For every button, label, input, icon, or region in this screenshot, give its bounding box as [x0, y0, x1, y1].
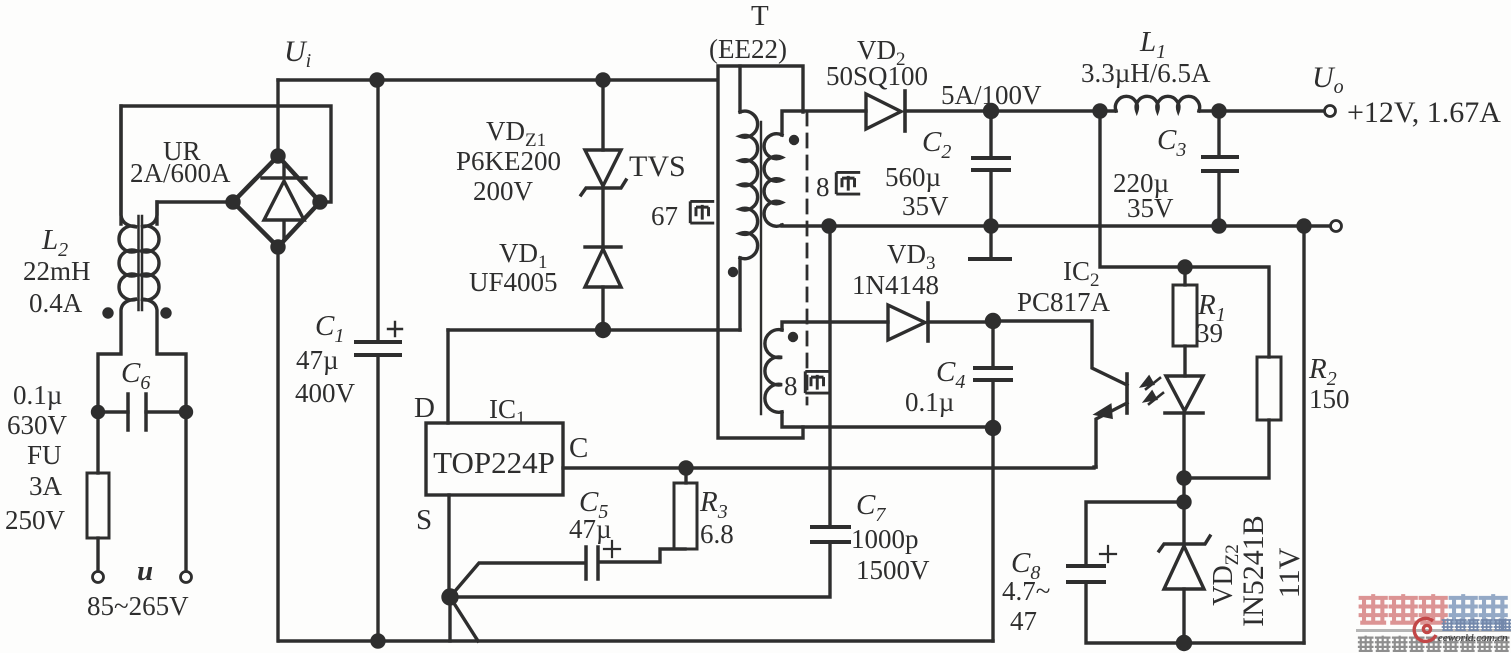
capacitor C8 plus sign [1100, 546, 1116, 562]
capacitor C5 plates [586, 547, 598, 579]
svg-text:P6KE200: P6KE200 [456, 146, 561, 176]
phototransistor base bar [1125, 374, 1129, 413]
transformer T primary winding 67turns [740, 111, 758, 259]
watermark underline [1356, 629, 1511, 632]
light arrows of optocoupler [1142, 377, 1163, 404]
watermark eeworld logo circle [1414, 618, 1436, 641]
wire L1 to output terminal [1199, 109, 1324, 112]
diode VD1 UF4005 cathode bar [585, 245, 621, 248]
node C4 bottom junction [987, 422, 1000, 435]
wire S node to ground rail [448, 597, 451, 641]
wire C pin of IC1 to optocoupler emitter [563, 466, 1094, 469]
diode VD2 cathode bar [903, 91, 907, 131]
capacitor C1 polarity plus [388, 322, 402, 336]
wire VD3 to C4 node [928, 320, 993, 323]
wire C8 branch [1086, 502, 1184, 566]
svg-text:0.1µ: 0.1µ [905, 387, 954, 417]
transformer T outline left/top/bottom [718, 66, 803, 438]
svg-text:(EE22): (EE22) [709, 34, 787, 64]
capacitor C3 bottom lead [1217, 171, 1220, 226]
wire HV+ rail top (node Ui) [278, 78, 717, 81]
phototransistor emitter with arrow [1096, 403, 1127, 467]
node VD1/drain junction [597, 324, 610, 337]
svg-text:TVS: TVS [629, 150, 686, 183]
wire bridge top to rail [276, 80, 279, 156]
wire left leg to fuse [96, 412, 99, 473]
TVS VDZ1 triangle (cathode up) [585, 150, 621, 186]
inductor L1 3.3uH [1115, 96, 1199, 111]
capacitor C6 wires and junction nodes [98, 410, 186, 413]
transformer T secondary lower polarity dot [790, 334, 797, 341]
svg-text:R3: R3 [699, 486, 728, 523]
node junction VDZ1 top [597, 74, 609, 86]
TVS VDZ1 zener bar with hooks [581, 180, 626, 195]
diode VD1 triangle (pointing up) [585, 249, 621, 287]
transformer T secondary upper winding 8turns [764, 134, 782, 227]
resistor R1 39 [1183, 267, 1186, 285]
transformer T secondary lower lead bottom (aux return) [782, 412, 993, 427]
zener VDZ2 triangle pointing up [1164, 546, 1204, 589]
resistor R2 150 [1257, 357, 1281, 420]
capacitor C2 plates [973, 158, 1009, 170]
svg-text:1500V: 1500V [856, 555, 930, 585]
watermark logo chars [1442, 618, 1511, 630]
wire VD2 to L1 (+12V rail) [905, 109, 1116, 112]
capacitor C2 bottom lead and stub bar [989, 170, 992, 258]
transformer T secondary lower lead top [782, 322, 888, 330]
terminal output return [1331, 221, 1342, 232]
node R3 top junction [680, 462, 692, 474]
node C3 top junction [1213, 105, 1225, 117]
svg-text:1N4148: 1N4148 [852, 270, 939, 300]
diode VD3 1N4148 triangle [888, 305, 925, 340]
svg-text:eeworld.com.cn: eeworld.com.cn [1438, 632, 1508, 644]
wire zener node [1182, 478, 1185, 543]
wire upper-left loop over bridge [121, 106, 331, 224]
node VDZ2 on control ground rail [1178, 637, 1191, 650]
svg-text:11V: 11V [1273, 547, 1306, 598]
node C4 top junction [987, 315, 1000, 328]
bridge rectifier UR 2A/600A diamond [233, 156, 320, 247]
node C7 on return rail [823, 220, 835, 232]
svg-text:VD3: VD3 [887, 239, 936, 274]
node C8 branch junction [1178, 496, 1190, 508]
svg-text:C: C [569, 432, 588, 464]
svg-text:C7: C7 [856, 489, 886, 526]
wire bridge left vertex to choke [157, 202, 233, 224]
svg-text:35V: 35V [902, 191, 949, 221]
resistor R3 6.8 [684, 468, 687, 483]
svg-text:6.8: 6.8 [700, 519, 734, 549]
svg-text:39: 39 [1196, 318, 1223, 348]
svg-text:0.1µ: 0.1µ [13, 380, 62, 410]
svg-text:250V: 250V [5, 505, 66, 535]
diode VD2 50SQ100 triangle [866, 94, 901, 129]
node Ui junction at C1 [371, 74, 383, 86]
L2 polarity dot left [104, 309, 112, 317]
wire emitter corner to C pin wire [1094, 465, 1096, 468]
diode symbol inside bridge UR [262, 163, 306, 238]
node C2 on return rail [985, 220, 997, 232]
svg-text:4.7~: 4.7~ [1002, 576, 1050, 606]
L2 polarity dot right [162, 309, 170, 317]
svg-text:400V: 400V [295, 378, 356, 408]
svg-text:S: S [416, 504, 432, 536]
diode VD3 cathode bar [926, 303, 930, 341]
capacitor C1 top lead [376, 80, 379, 341]
wire C7 to output return rail [828, 226, 831, 527]
node S star junction [443, 590, 457, 604]
capacitor C4 bottom lead [991, 380, 994, 428]
svg-text:T: T [751, 0, 769, 32]
svg-text:IN5241B: IN5241B [1237, 515, 1270, 627]
phototransistor of IC2 collector wire [993, 321, 1127, 385]
terminal input right [181, 572, 192, 583]
svg-text:u: u [137, 555, 153, 587]
wire C5 to R3 bottom [600, 549, 685, 562]
L2 core lines [139, 216, 143, 310]
op IC1 TOP224P box [426, 423, 563, 495]
capacitor C8 bottom lead to control ground rail [1086, 582, 1304, 643]
svg-text:1000p: 1000p [851, 524, 919, 554]
wire fuse to input terminal [96, 538, 99, 571]
wire VDZ1 to VD1 [601, 188, 604, 247]
svg-text:TOP224P: TOP224P [433, 445, 555, 480]
svg-text:C1: C1 [315, 310, 344, 347]
svg-text:IC1: IC1 [489, 394, 526, 429]
inductor L2 right winding [141, 202, 186, 412]
svg-text:3A: 3A [29, 471, 63, 501]
wire feedback branch down to R1/R2 [1100, 111, 1269, 357]
svg-text:UF4005: UF4005 [469, 267, 558, 297]
svg-text:85~265V: 85~265V [87, 591, 189, 621]
wire VDZ2 to control ground [1182, 589, 1185, 643]
capacitor C6 plates [128, 394, 146, 430]
wire right leg to input terminal [184, 412, 187, 571]
transformer T secondary upper lead bottom to output return rail [782, 225, 1330, 226]
capacitor C4 0.1u top lead [991, 321, 994, 367]
wire D pin of IC1 [446, 330, 449, 423]
transformer T secondary upper lead top [782, 111, 866, 135]
svg-text:47µ: 47µ [296, 345, 339, 375]
svg-text:8: 8 [784, 371, 798, 401]
svg-text:5A/100V: 5A/100V [941, 80, 1042, 110]
capacitor C1 bottom lead [376, 355, 379, 641]
transformer T primary lead bottom [738, 258, 741, 330]
node C3 on return rail [1213, 220, 1225, 232]
terminal input left [93, 572, 104, 583]
wire S node diagonal to ground rail [450, 597, 478, 641]
svg-text:200V: 200V [473, 176, 534, 206]
svg-text:2A/600A: 2A/600A [130, 158, 231, 188]
TVS VDZ1 P6KE200 lead from rail [601, 80, 604, 150]
wire S node to C7 [450, 543, 830, 597]
svg-text:50SQ100: 50SQ100 [826, 61, 928, 91]
svg-text:FU: FU [27, 440, 62, 470]
svg-text:8: 8 [816, 172, 830, 202]
svg-text:Uo: Uo [1312, 61, 1344, 98]
svg-text:C3: C3 [1157, 124, 1186, 161]
node feedback branch junction [1094, 105, 1106, 117]
zener VDZ2 bar with hooks [1159, 536, 1210, 551]
wire bridge bottom to primary ground rail [276, 247, 279, 641]
svg-text:D: D [414, 392, 435, 424]
svg-text:67: 67 [651, 201, 678, 231]
svg-text:IC2: IC2 [1063, 256, 1100, 291]
svg-text:3.3µH/6.5A: 3.3µH/6.5A [1081, 58, 1211, 88]
capacitor C1 plates [356, 342, 400, 355]
terminal output plus [1325, 106, 1336, 117]
transformer T primary polarity dot [730, 269, 737, 276]
wire primary ground rail [279, 639, 993, 642]
transformer T secondary lower winding 8turns [765, 330, 782, 413]
svg-text:35V: 35V [1127, 193, 1174, 223]
transformer T core line solid [760, 122, 762, 414]
svg-text:PC817A: PC817A [1017, 287, 1111, 317]
svg-text:630V: 630V [7, 410, 68, 440]
watermark small gray slogan row [1358, 636, 1510, 651]
capacitor C5 plus sign [604, 541, 620, 557]
wire right vertical return to control ground [1302, 226, 1305, 643]
wire VD1 to drain node [601, 287, 604, 330]
capacitor C2 560u top lead [989, 111, 992, 158]
transformer T secondary upper polarity dot [791, 137, 798, 144]
bridge vertex dots [272, 150, 284, 162]
node right branch on return rail [1298, 220, 1310, 232]
transformer T core line dashed [806, 112, 809, 404]
node R1 top [1179, 261, 1191, 273]
capacitor C3 220u top lead [1217, 111, 1220, 157]
wire drain line D to transformer primary [448, 328, 740, 331]
inductor L2 common-mode choke left winding [98, 106, 137, 412]
LED of optocoupler IC2 [1166, 376, 1203, 411]
wire C4 node down to primary ground rail [991, 428, 994, 641]
fuse FU 3A/250V [87, 473, 109, 538]
svg-text:560µ: 560µ [885, 162, 941, 192]
svg-text:150: 150 [1309, 384, 1350, 414]
svg-text:Ui: Ui [284, 35, 311, 72]
svg-text:47µ: 47µ [569, 514, 612, 544]
capacitor C8 plates [1068, 566, 1104, 582]
node zener top junction [1178, 472, 1190, 484]
wire S node diagonal to C5 [450, 563, 584, 597]
svg-text:0.4A: 0.4A [29, 288, 83, 318]
capacitor C7 1000p plates [812, 527, 849, 542]
transformer T primary lead top [738, 66, 741, 112]
node C1 on ground rail [372, 635, 384, 647]
capacitor C3 plates [1203, 157, 1237, 171]
watermark big row (red+blue brand chars) [1359, 594, 1508, 623]
capacitor C4 plates [975, 368, 1011, 380]
svg-text:+12V, 1.67A: +12V, 1.67A [1347, 96, 1501, 129]
svg-text:22mH: 22mH [23, 256, 91, 286]
svg-text:47: 47 [1010, 606, 1037, 636]
svg-text:C2: C2 [922, 126, 951, 163]
node C2 top junction [985, 105, 998, 118]
svg-text:C6: C6 [121, 357, 150, 394]
wire S pin of IC1 [447, 495, 450, 597]
